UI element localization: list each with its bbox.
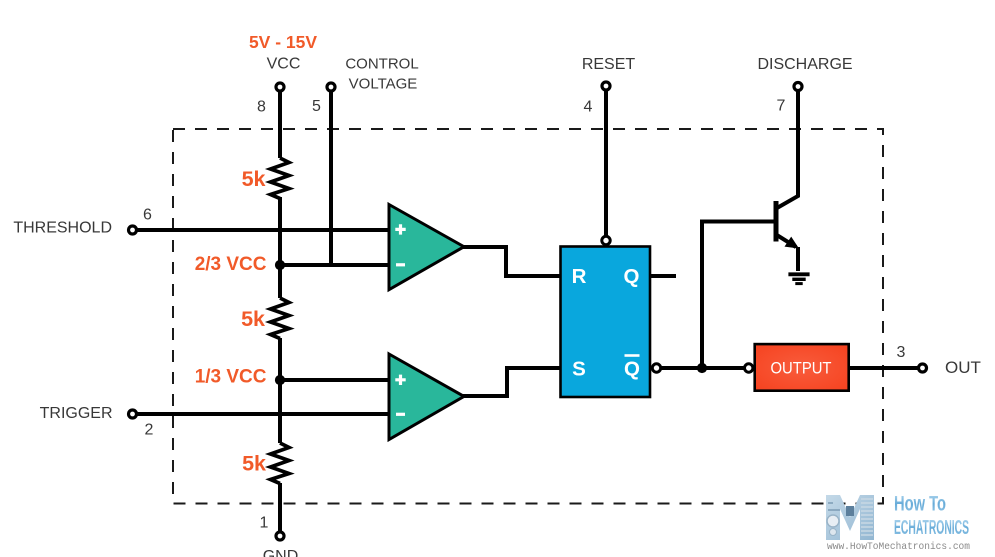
terminal: THRESHOLD pin 6 [129, 226, 137, 234]
pin bubble: Qbar output [652, 364, 660, 372]
svg-text:How To: How To [894, 492, 946, 515]
svg-text:www.HowToMechatronics.com: www.HowToMechatronics.com [827, 541, 970, 553]
svg-text:7: 7 [777, 98, 786, 115]
wire: 2/3 VCC node to comparator U1 - input [280, 263, 389, 267]
terminal: VCC pin 8 [276, 83, 284, 91]
resistor R2 5k [271, 298, 290, 339]
svg-text:5k: 5k [242, 452, 266, 476]
flip-flop U3 (RS latch) [561, 247, 651, 398]
terminal: GND pin 1 [276, 532, 284, 540]
svg-text:Q: Q [624, 358, 640, 381]
resistor R1 5k [271, 158, 290, 199]
terminal: OUT pin 3 [919, 364, 927, 372]
svg-text:THRESHOLD: THRESHOLD [13, 220, 112, 237]
OUTPUT block [755, 344, 849, 391]
pin bubble: OUTPUT block input [745, 364, 753, 372]
IC boundary (dashed) [173, 129, 883, 504]
wire: control voltage rail (pin5 down to 2/3 VCC node) [329, 87, 333, 265]
svg-text:OUTPUT: OUTPUT [771, 360, 832, 378]
wire: VCC rail R1 to R2 [278, 197, 282, 298]
terminal: DISCHARGE pin 7 [794, 83, 802, 91]
svg-text:8: 8 [257, 99, 266, 116]
svg-text:5: 5 [312, 98, 321, 115]
svg-text:S: S [572, 358, 586, 381]
logo: HowToMechatronics watermark [826, 492, 970, 553]
svg-text:2/3 VCC: 2/3 VCC [195, 254, 267, 275]
svg-text:ECHATRONICS: ECHATRONICS [894, 517, 969, 539]
wire: 1/3 VCC node to comparator U2 + input [280, 378, 389, 382]
wire: VCC rail R3 to GND pin1 [278, 483, 282, 536]
svg-text:CONTROL: CONTROL [345, 56, 418, 73]
svg-text:VOLTAGE: VOLTAGE [349, 76, 418, 93]
svg-text:RESET: RESET [582, 56, 636, 73]
svg-text:3: 3 [897, 344, 906, 361]
wire: transistor emitter to ground [796, 247, 800, 271]
wire: VCC rail R2 to R3 [278, 338, 282, 443]
wire: comparator U1 output to flip-flop R input [462, 247, 561, 276]
svg-text:5k: 5k [241, 307, 265, 331]
svg-text:DISCHARGE: DISCHARGE [757, 56, 852, 73]
ground [788, 274, 809, 283]
svg-text:1/3 VCC: 1/3 VCC [195, 367, 267, 388]
transistor Q1 (discharge) [776, 201, 799, 249]
wire: VCC rail top (pin8 to R1) [278, 87, 282, 158]
resistor R3 5k [271, 443, 290, 484]
wire: OUTPUT block to OUT pin3 [849, 366, 922, 370]
wire: comparator U2 output to flip-flop S input [462, 368, 561, 396]
terminal: TRIGGER pin 2 [129, 410, 137, 418]
wire: Q output stub [650, 274, 676, 278]
svg-text:Q: Q [624, 265, 640, 288]
svg-text:5V - 15V: 5V - 15V [249, 32, 317, 52]
terminal: RESET pin 4 [602, 82, 610, 90]
node: 1/3 VCC junction [275, 375, 285, 385]
wire: Qbar to OUTPUT block [660, 366, 745, 370]
svg-text:OUT: OUT [945, 358, 981, 377]
wire: DISCHARGE pin7 down to transistor collector [777, 87, 798, 208]
svg-text:GND: GND [263, 548, 299, 557]
svg-text:2: 2 [145, 422, 154, 439]
pin bubble: reset into flip-flop [602, 236, 610, 244]
terminal: CONTROL VOLTAGE pin 5 [327, 83, 335, 91]
wire: Qbar node up to transistor base [702, 222, 774, 369]
wire: THRESHOLD to comparator U1 + input [133, 228, 389, 232]
svg-text:VCC: VCC [267, 56, 301, 73]
svg-text:TRIGGER: TRIGGER [40, 405, 113, 422]
wire: TRIGGER to comparator U2 - input [133, 412, 389, 416]
wire: RESET pin4 down to flip-flop [604, 87, 608, 237]
svg-text:5k: 5k [242, 167, 266, 191]
svg-text:6: 6 [143, 207, 152, 224]
op-amp comparator U2 (trigger) [389, 354, 464, 440]
node: Qbar/base junction [697, 363, 707, 373]
node: 2/3 VCC junction [275, 260, 285, 270]
svg-text:R: R [572, 265, 587, 288]
op-amp comparator U1 (threshold) [389, 205, 464, 290]
svg-text:1: 1 [260, 515, 269, 532]
svg-text:4: 4 [584, 99, 593, 116]
